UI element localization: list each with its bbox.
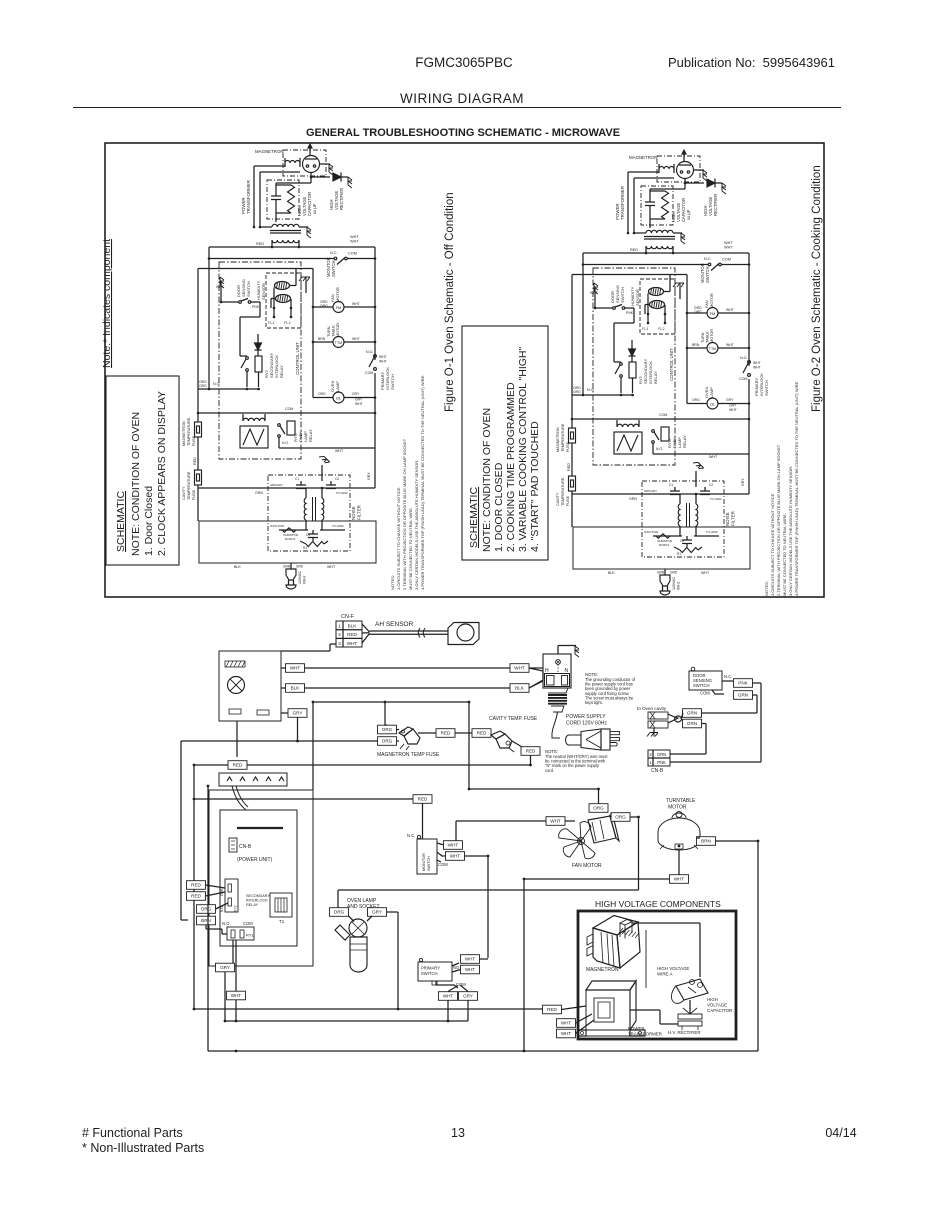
wire label WHT primary 3: [439, 992, 458, 1001]
monitor switch body: [417, 839, 437, 874]
svg-text:MAGNETRON: MAGNETRON: [556, 427, 560, 452]
wire wht primary up: [480, 958, 489, 960]
svg-text:WHT: WHT: [327, 565, 336, 569]
svg-text:TRANSFORMER: TRANSFORMER: [246, 180, 251, 214]
wire wht monitor up: [455, 821, 457, 841]
humidity sensor ground O-1: [305, 281, 307, 293]
monitor switch SW-M O-1: [334, 257, 337, 260]
wire label WHT supply: [510, 664, 529, 673]
wire label ORG fan 2: [611, 813, 630, 822]
svg-text:60Hz: 60Hz: [303, 575, 307, 584]
svg-text:WHT: WHT: [726, 308, 734, 312]
wire label ORG lamp: [330, 908, 349, 917]
svg-text:BLK: BLK: [234, 565, 241, 569]
svg-text:PNK: PNK: [738, 681, 748, 686]
svg-text:MONITOR: MONITOR: [422, 853, 426, 871]
svg-text:GRD: GRD: [296, 565, 304, 569]
primary lead right O-1: [298, 240, 300, 247]
wire label BLK control: [281, 687, 286, 689]
high voltage rectifier D1 O-2: [707, 179, 715, 187]
svg-text:WHT: WHT: [561, 1031, 572, 1036]
magnetron temperature fuse F2 O-1: [197, 420, 199, 422]
svg-text:TABLE: TABLE: [332, 325, 336, 337]
svg-text:N.O.: N.O.: [282, 441, 289, 445]
svg-text:1. DOOR CLOSED: 1. DOOR CLOSED: [493, 462, 505, 552]
wire label PNK door: [734, 679, 753, 688]
svg-text:GRY: GRY: [293, 711, 303, 716]
svg-text:GRY: GRY: [372, 910, 382, 915]
svg-text:RED: RED: [477, 731, 487, 736]
thick trace: [237, 827, 283, 829]
svg-text:SWITCH: SWITCH: [620, 287, 625, 303]
svg-text:RED: RED: [567, 463, 571, 471]
relay coil winding O-2: [617, 424, 639, 427]
filter capacitor C3 O-2: [686, 536, 688, 540]
humidity sensor box (dashed) O-2: [640, 279, 675, 334]
svg-text:WHT: WHT: [290, 666, 301, 671]
door sensing switch O-2: [613, 307, 616, 310]
com return wire O-2: [593, 418, 749, 420]
wire label ORG fan 1: [589, 804, 608, 813]
svg-text:3.ONLY CERTAIN MODELS USE THE: 3.ONLY CERTAIN MODELS USE THE ABSOLUTE H…: [788, 466, 793, 596]
svg-text:ORG: ORG: [573, 390, 581, 394]
filter capacitor C3 O-1: [312, 530, 314, 534]
svg-text:TTM: TTM: [335, 341, 342, 345]
svg-text:WIRE A: WIRE A: [657, 972, 672, 977]
svg-text:WHT: WHT: [729, 408, 737, 412]
svg-text:TTM: TTM: [709, 347, 716, 351]
filter inlet wires O-2: [572, 493, 653, 495]
svg-text:POWER SUPPLY: POWER SUPPLY: [566, 714, 606, 720]
svg-text:TRANSFORMER: TRANSFORMER: [620, 186, 625, 220]
noise filter box (dashed) O-2: [642, 481, 724, 557]
hv magnetron hatch band: [619, 928, 623, 933]
svg-text:RED: RED: [526, 749, 536, 754]
wire label BRN turntable: [697, 837, 716, 846]
wire label RED monitor: [413, 795, 432, 804]
svg-text:MAGNETRON: MAGNETRON: [629, 155, 658, 160]
CN-F drop wire: [330, 643, 336, 645]
svg-text:VOLTAGE: VOLTAGE: [707, 1003, 727, 1008]
svg-text:WHT: WHT: [450, 854, 461, 859]
svg-text:MOTOR: MOTOR: [668, 805, 687, 811]
oven lamp socket: [349, 919, 367, 937]
hv capacitor body: [676, 979, 708, 1000]
primary interlock switch O-2: [748, 361, 751, 364]
control panel connector slots: [229, 709, 241, 714]
troubleshooting outer box: [105, 143, 824, 597]
svg-text:TURN: TURN: [701, 332, 705, 343]
svg-text:SWITCH: SWITCH: [331, 260, 336, 277]
svg-text:WHT: WHT: [352, 337, 360, 341]
svg-text:TEMPERATURE: TEMPERATURE: [187, 417, 191, 446]
svg-text:RED: RED: [191, 894, 201, 899]
filter choke L1 O-2: [678, 504, 680, 526]
svg-text:RED: RED: [191, 883, 201, 888]
svg-text:N.C.: N.C.: [704, 257, 712, 261]
svg-text:TEMPERATURE: TEMPERATURE: [561, 477, 565, 506]
svg-text:(POWER UNIT): (POWER UNIT): [237, 857, 273, 863]
power unit enclosure: [209, 790, 313, 966]
svg-text:RED: RED: [347, 632, 357, 637]
hv magnetron top face: [593, 916, 638, 936]
svg-text:FILTER: FILTER: [731, 511, 736, 526]
svg-text:MOTOR: MOTOR: [709, 293, 714, 308]
wire label WHT monitor 2: [437, 852, 445, 856]
filament wire A O-1: [253, 166, 255, 227]
wire red drop from fuse: [530, 755, 532, 765]
receptacle mounting plate: [546, 688, 568, 693]
svg-text:CORD 120V 60Hz: CORD 120V 60Hz: [566, 721, 607, 727]
figure O-1 note box: [106, 376, 179, 565]
turntable motor wire O-1: [313, 341, 333, 343]
magnetron antenna arrow O-2: [683, 151, 685, 161]
svg-text:1.CIRCUITS SUBJECT TO CHANGE W: 1.CIRCUITS SUBJECT TO CHANGE WITHOUT NOT…: [770, 493, 775, 596]
wire label WHT hv 1: [557, 1019, 576, 1028]
svg-text:WHT: WHT: [379, 360, 387, 364]
svg-text:1.CIRCUITS SUBJECT TO CHANGE W: 1.CIRCUITS SUBJECT TO CHANGE WITHOUT NOT…: [396, 487, 401, 590]
turntable motor TTM O-2: [707, 343, 718, 354]
magnetron enclosure (dash-dot) O-2: [657, 156, 700, 182]
svg-text:COM: COM: [365, 371, 373, 375]
svg-text:MAGNETRON: MAGNETRON: [255, 149, 284, 154]
power transformer T-HV secondary O-2: [646, 230, 673, 233]
power supply receptacle: [543, 654, 571, 688]
svg-text:SWITCH: SWITCH: [427, 856, 431, 871]
svg-text:CAPACITOR: CAPACITOR: [707, 1008, 732, 1013]
svg-text:N.O.: N.O.: [222, 921, 231, 926]
wire gry bottom drop: [224, 972, 226, 1021]
filter choke L2 O-1: [322, 498, 324, 520]
svg-text:MOTOR: MOTOR: [336, 323, 340, 337]
svg-text:* Non-Illustrated Parts: * Non-Illustrated Parts: [82, 1141, 204, 1155]
magnetron tube V1 O-1: [303, 156, 320, 173]
connector CN-F: [336, 621, 362, 647]
filter capacitor C1 O-1: [300, 481, 302, 485]
door sensing switch ground O-1: [220, 277, 224, 288]
svg-text:NOTE: CONDITION OF OVEN: NOTE: CONDITION OF OVEN: [130, 412, 142, 556]
wire label RED cavityfuse: [472, 729, 491, 738]
svg-text:RED: RED: [418, 797, 428, 802]
oven lamp relay contact O-2: [652, 430, 655, 433]
svg-text:xx µF: xx µF: [312, 203, 317, 214]
svg-text:WHT: WHT: [465, 957, 476, 962]
svg-text:POWER: POWER: [628, 1026, 645, 1031]
svg-text:60Hz: 60Hz: [677, 581, 681, 590]
svg-text:13: 13: [451, 1126, 465, 1140]
svg-text:Note:* Indicates component: Note:* Indicates component: [101, 239, 113, 368]
svg-text:WHT: WHT: [724, 241, 733, 245]
svg-text:GRD: GRD: [670, 571, 678, 575]
hv internal wires: [630, 1009, 660, 1011]
relay lower wires O-2: [652, 443, 654, 454]
connector CN-B door: [648, 750, 670, 766]
wire control panel drop: [236, 721, 238, 757]
svg-text:WHT: WHT: [350, 235, 359, 239]
humidity sensor wires O-1: [273, 288, 275, 318]
svg-text:HIGH: HIGH: [707, 997, 718, 1002]
wire label GRN door: [734, 691, 753, 700]
svg-text:RY2: RY2: [234, 905, 238, 912]
magnetron filament lead: [645, 930, 647, 988]
wire org loop top: [313, 701, 469, 703]
transformer core O-1: [270, 230, 301, 232]
wire grn lug run: [702, 723, 707, 725]
svg-text:GRY: GRY: [741, 478, 745, 486]
svg-text:Publication No: 5995643961: Publication No: 5995643961: [668, 55, 835, 70]
svg-text:WHT: WHT: [753, 361, 761, 365]
svg-text:xx µF: xx µF: [686, 209, 691, 220]
control unit box (dash-dot) O-1: [219, 262, 301, 459]
right bus wire O-1: [374, 247, 376, 360]
svg-text:CONTROL UNIT: CONTROL UNIT: [669, 348, 674, 381]
neutral bus wire right O-1: [347, 258, 375, 260]
oven lamp relay contact O-1: [278, 424, 281, 427]
rectifier ground O-2: [722, 183, 726, 194]
primary lead right O-2: [672, 246, 674, 253]
svg-text:WHT: WHT: [514, 666, 525, 671]
wire pnk run: [753, 682, 762, 684]
svg-text:GRN: GRN: [657, 571, 665, 575]
svg-text:RY1: RY1: [246, 933, 254, 938]
svg-text:RECTIFIER: RECTIFIER: [339, 188, 344, 210]
wire wht bottom drop: [235, 1000, 237, 1021]
power plug O-2: [660, 575, 670, 586]
svg-text:BRN: BRN: [318, 337, 326, 341]
wire label GRN lug 2: [683, 719, 702, 728]
primary switch body: [418, 962, 452, 981]
wire label WHT turntable: [670, 875, 689, 884]
HV cap bottom wire O-2: [649, 221, 651, 228]
relay to com wire O-1: [239, 322, 241, 356]
wire brn feeder: [181, 740, 298, 742]
magnetron temp fuse device: [399, 727, 413, 736]
power transformer primary O-2: [646, 246, 673, 249]
high voltage components box: [578, 911, 736, 1039]
wire label GRY primary: [459, 992, 478, 1001]
svg-text:GRY: GRY: [367, 472, 371, 480]
svg-text:PRIMARY: PRIMARY: [421, 966, 440, 971]
svg-text:SWITCH: SWITCH: [246, 281, 251, 297]
fan motor FM O-1: [333, 302, 344, 313]
wire wht turntable left: [524, 878, 670, 880]
svg-text:to Oven cavity: to Oven cavity: [637, 706, 667, 711]
secondary interlock relay contact O-2: [620, 363, 623, 366]
secondary interlock relay contact O-1: [246, 357, 249, 360]
cavity temp fuse device: [491, 731, 505, 739]
wire gry to fuse: [298, 740, 379, 742]
svg-text:4.POWER TRANSFORMER TOP (FINIS: 4.POWER TRANSFORMER TOP (FINISH LEAD) TE…: [794, 381, 799, 596]
svg-text:2. COOKING TIME PROGRAMMED: 2. COOKING TIME PROGRAMMED: [505, 382, 517, 552]
humidity sensor element 2 O-1: [276, 295, 291, 303]
HV cap top wire O-1: [276, 182, 311, 184]
bottom loop wire box O-1: [199, 521, 376, 563]
relay to com wire O-2: [613, 328, 615, 362]
fan motor FM O-2: [707, 308, 718, 319]
humidity sensor element 1 O-2: [649, 288, 664, 296]
filament wire B O-2: [633, 178, 635, 233]
svg-text:120VAC: 120VAC: [298, 570, 302, 584]
choke wires O-2: [679, 494, 681, 504]
power plug back plate: [601, 729, 610, 750]
svg-text:WHT: WHT: [674, 877, 685, 882]
HV cap bottom wire O-1: [275, 215, 277, 222]
relay core box O-2: [614, 432, 642, 454]
door sensing switch ground O-2: [594, 283, 598, 294]
svg-text:GRN: GRN: [657, 752, 666, 757]
wire label GRN lug 1: [683, 709, 702, 718]
svg-text:ORG: ORG: [593, 806, 604, 811]
oven lamp wire O-2: [687, 403, 707, 405]
wire label WHT control: [281, 667, 286, 669]
svg-text:1. Door Closed: 1. Door Closed: [143, 486, 155, 556]
svg-text:C3: C3: [680, 539, 684, 543]
primary lead left O-2: [645, 246, 647, 253]
svg-text:Figure O-2 Oven Schematic - Co: Figure O-2 Oven Schematic - Cooking Cond…: [811, 165, 823, 412]
main bus top wire O-2: [583, 252, 749, 254]
power unit board: [220, 810, 297, 946]
svg-text:F1-2: F1-2: [658, 327, 665, 331]
svg-text:SENSOR: SENSOR: [261, 283, 266, 300]
motor column bus O-2: [670, 274, 687, 276]
svg-text:COM: COM: [659, 413, 667, 417]
svg-text:CN-F: CN-F: [341, 614, 355, 620]
svg-text:TURNTABLE: TURNTABLE: [666, 798, 696, 804]
svg-text:R1: R1: [677, 552, 681, 556]
svg-text:C2: C2: [709, 483, 713, 487]
svg-text:F1-1: F1-1: [268, 321, 275, 325]
svg-text:BRN: BRN: [201, 918, 211, 923]
turntable motor: [658, 818, 700, 850]
wire wht gry primary drops: [447, 1000, 449, 1021]
svg-text:JUNCTION: JUNCTION: [644, 530, 658, 534]
svg-text:FILTER: FILTER: [357, 505, 362, 520]
cavity temperature fuse F1 O-1: [195, 470, 202, 485]
choke core O-1: [312, 497, 314, 521]
svg-text:GRN: GRN: [629, 497, 637, 501]
svg-text:MUST BE CONNECTED TO NEUTRAL W: MUST BE CONNECTED TO NEUTRAL WIRE.: [408, 507, 413, 590]
svg-text:WHT: WHT: [465, 967, 476, 972]
svg-text:TEMPERATURE: TEMPERATURE: [187, 471, 191, 500]
hv transformer base: [578, 1030, 586, 1036]
control panel indicator lamp: [228, 677, 245, 694]
svg-text:N.O.: N.O.: [587, 388, 594, 392]
humidity sensor wires O-2: [647, 294, 649, 324]
filament wire B O-1: [259, 172, 261, 227]
svg-text:ORG: ORG: [320, 304, 328, 308]
oven lamp relay coil RY-D O-1: [287, 421, 295, 435]
svg-text:TABLE: TABLE: [706, 331, 710, 343]
svg-text:CN-B: CN-B: [239, 844, 252, 850]
fuse resistor line O-1: [282, 528, 296, 532]
high voltage capacitor C-HV O-2: [649, 189, 651, 202]
svg-text:INTERLOCK: INTERLOCK: [246, 899, 268, 903]
svg-text:2: 2: [338, 632, 341, 637]
svg-text:4.POWER TRANSFORMER TOP (FINIS: 4.POWER TRANSFORMER TOP (FINISH LEAD) TE…: [420, 375, 425, 590]
svg-text:WHT: WHT: [753, 366, 761, 370]
door switch riser wire O-2: [633, 308, 635, 323]
svg-text:C1: C1: [669, 483, 673, 487]
svg-text:T1: T1: [279, 919, 285, 924]
svg-text:BRN: BRN: [692, 343, 700, 347]
svg-text:FM: FM: [336, 305, 342, 310]
svg-text:WHT: WHT: [231, 993, 242, 998]
hv magnetron hooks: [587, 934, 593, 945]
magnetron filament coil O-1: [285, 161, 300, 163]
svg-text:WHT: WHT: [709, 455, 718, 459]
svg-text:MAGNETRON: MAGNETRON: [182, 421, 186, 446]
turntable motor wire O-2: [687, 347, 707, 349]
primary interlock switch O-1: [374, 355, 377, 358]
svg-text:SWITCH: SWITCH: [764, 380, 769, 396]
wire label RED long: [228, 761, 247, 770]
svg-text:MAGNETRON TEMP FUSE: MAGNETRON TEMP FUSE: [377, 752, 440, 758]
svg-text:SWITCH: SWITCH: [390, 374, 395, 390]
svg-text:CAVITY: CAVITY: [182, 486, 186, 500]
svg-text:NOTE: CONDITION OF OVEN: NOTE: CONDITION OF OVEN: [481, 408, 493, 552]
left bus wire O-2: [582, 253, 584, 265]
svg-text:H.V. RECTIFIER: H.V. RECTIFIER: [668, 1030, 701, 1035]
svg-text:WHT: WHT: [350, 240, 359, 244]
oven lamp relay coil RY-D O-2: [661, 427, 669, 441]
wire label WHT primary 1: [461, 955, 480, 964]
power transformer T-HV secondary O-1: [272, 224, 299, 227]
com bus wire O-1: [198, 412, 219, 414]
svg-text:GENERAL TROUBLESHOOTING SCHEMA: GENERAL TROUBLESHOOTING SCHEMATIC - MICR…: [306, 127, 620, 139]
lug ground symbol: [653, 728, 655, 732]
svg-text:NOTES:: NOTES:: [390, 575, 395, 590]
svg-text:HIGH VOLTAGE COMPONENTS: HIGH VOLTAGE COMPONENTS: [595, 899, 721, 909]
svg-text:CAVITY TEMP. FUSE: CAVITY TEMP. FUSE: [489, 716, 538, 722]
inner circuit box O-2: [571, 275, 573, 396]
choke wires O-1: [305, 488, 307, 498]
relay node wire O-2: [572, 394, 634, 396]
hv magnetron front face: [593, 928, 620, 968]
svg-text:GRY: GRY: [355, 398, 363, 402]
wire label GRY powerunit: [216, 963, 235, 972]
door sensing switch O-1: [239, 301, 242, 304]
svg-text:C1: C1: [295, 477, 299, 481]
svg-text:CAVITY: CAVITY: [556, 492, 560, 506]
cavity temperature fuse F1 O-2: [569, 476, 576, 491]
wire red monitor run: [194, 798, 414, 800]
svg-text:2.TERMINAL WITH PROJECTION OR: 2.TERMINAL WITH PROJECTION OR OPPOSITE B…: [402, 438, 407, 590]
svg-text:3. VARIABLE COOKING CONTROL "H: 3. VARIABLE COOKING CONTROL "HIGH": [517, 346, 529, 552]
wire label WHT powerunit: [227, 991, 246, 1000]
svg-text:RELAY: RELAY: [246, 903, 259, 907]
svg-text:PNK: PNK: [626, 311, 634, 315]
high voltage capacitor C-HV O-1: [275, 183, 277, 196]
wire org return to lamp: [338, 889, 639, 891]
wire bottom long run: [208, 1050, 758, 1052]
fuse resistor line O-2: [656, 534, 670, 538]
humidity sensor element 1 O-1: [275, 282, 290, 290]
turntable motor TTM O-1: [333, 337, 344, 348]
hv magnetron right face: [617, 922, 640, 968]
svg-text:OL: OL: [336, 396, 342, 401]
svg-text:SCHEMATIC: SCHEMATIC: [468, 487, 480, 548]
figure O-2 note box: [462, 326, 548, 560]
AH sensor cable: [370, 630, 449, 632]
svg-text:CONTROL UNIT: CONTROL UNIT: [295, 342, 300, 375]
wire label RED powerunit 2: [187, 892, 206, 901]
svg-text:NOTES:: NOTES:: [764, 581, 769, 596]
svg-text:RECTIFIER: RECTIFIER: [713, 194, 718, 216]
svg-text:WHT: WHT: [724, 246, 733, 250]
svg-text:N.O.: N.O.: [213, 382, 220, 386]
oven lamp bulb: [350, 937, 367, 965]
svg-text:MOTOR: MOTOR: [335, 287, 340, 302]
